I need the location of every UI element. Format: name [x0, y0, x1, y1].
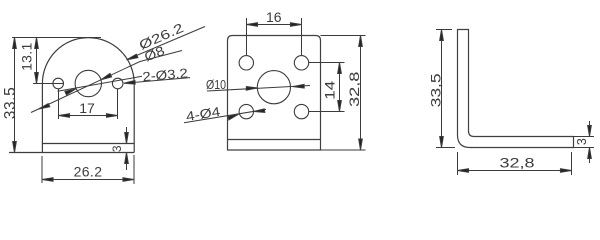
svg-text:16: 16 [266, 9, 282, 25]
dimension 17 [59, 89, 118, 119]
corner holes 4-Ø4 [239, 56, 253, 70]
svg-text:32,8: 32,8 [346, 71, 362, 107]
svg-text:14: 14 [322, 81, 338, 100]
svg-text:32,8: 32,8 [500, 154, 535, 170]
leader 4-Ø4 [184, 109, 266, 123]
center extension line [33, 83, 64, 85]
dimension 14 [309, 63, 345, 112]
svg-text:33.5: 33.5 [2, 87, 19, 120]
hole center Ø8 [75, 70, 101, 96]
dimension 26.2 [42, 155, 134, 184]
hole right Ø3.2 [112, 78, 123, 89]
svg-text:3: 3 [575, 138, 589, 145]
leader Ø10 [207, 84, 310, 91]
dimension 33.5 [13, 38, 17, 153]
svg-text:13.1: 13.1 [19, 42, 35, 70]
svg-text:2-Ø3.2: 2-Ø3.2 [142, 65, 189, 84]
dimension 13.1 [35, 38, 39, 84]
top extension line [12, 37, 101, 39]
svg-text:17: 17 [79, 100, 95, 116]
dimension 32.8 (middle) [321, 36, 366, 151]
hole left Ø3.2 [53, 78, 64, 89]
leader Ø26.2 [127, 27, 206, 60]
dimension 3 (left view) [125, 127, 129, 170]
svg-text:33,5: 33,5 [428, 73, 444, 107]
svg-text:26.2: 26.2 [74, 164, 103, 180]
dimension 16 [247, 18, 302, 55]
dimension 33,5 [436, 30, 455, 148]
center hole Ø10 [257, 71, 290, 104]
leader Ø8 (long diagonal) [31, 51, 182, 113]
dimension 32,8 (right view) [458, 152, 572, 175]
dimension 3 (right view) [574, 121, 595, 163]
svg-text:4-Ø4: 4-Ø4 [185, 104, 221, 124]
bracket body outline (semicircular top) [9, 38, 134, 153]
flange inner line [42, 143, 134, 145]
L profile outline [458, 30, 574, 148]
plate outline [228, 36, 321, 151]
leader 2-Ø3.2 [124, 78, 190, 85]
svg-text:3: 3 [110, 145, 124, 152]
svg-text:Ø10: Ø10 [206, 77, 226, 92]
bottom edge [9, 152, 134, 154]
